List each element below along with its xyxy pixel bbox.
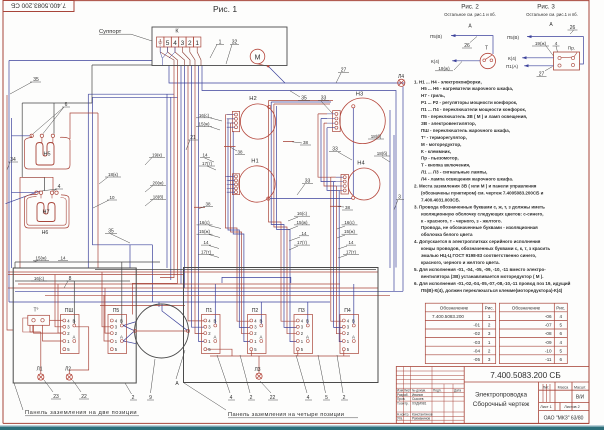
selector wedge from P5 — [123, 322, 136, 344]
svg-text:Утв.: Утв. — [397, 417, 403, 421]
svg-text:П4: П4 — [344, 308, 351, 314]
lamp L3 wire + under-block bus — [207, 349, 350, 373]
wire label 35 top mid — [290, 91, 310, 102]
mid trunk T4 (to P3) — [269, 101, 297, 342]
svg-text:Обозначение: Обозначение — [512, 305, 541, 310]
label 32 (wire) — [226, 40, 239, 65]
H3 strip drop bundle — [318, 114, 336, 190]
support box (Суппорт) — [152, 27, 287, 66]
svg-text:7.400.5083.200 СБ: 7.400.5083.200 СБ — [490, 371, 560, 380]
svg-text:15(ж): 15(ж) — [199, 229, 211, 234]
svg-text:14: 14 — [202, 153, 208, 158]
thermostat link to PSh — [50, 319, 63, 321]
svg-text:К(4): К(4) — [431, 59, 440, 64]
label 1 (wire) — [210, 40, 224, 59]
svg-text:-04: -04 — [473, 348, 480, 353]
title block left tiny rows — [397, 389, 461, 421]
K trunk T1 (to bus) — [132, 66, 184, 315]
svg-text:4: 4 — [560, 314, 563, 319]
svg-text:Т: Т — [485, 46, 488, 52]
svg-text:А: А — [120, 335, 123, 340]
svg-text:5: 5 — [166, 40, 170, 47]
panel 1 leader + caption — [14, 383, 139, 416]
wire 35 navy: support junction diagonal + long run — [202, 66, 396, 268]
svg-text:Рис. 2: Рис. 2 — [461, 4, 479, 11]
bottom teal window bar — [0, 425, 604, 430]
wire blue rail x92.5 with y244.8 branch — [93, 97, 178, 302]
svg-text:Сборочный чертеж: Сборочный чертеж — [473, 400, 530, 408]
wire label 21 — [186, 135, 198, 150]
trunk labels 16с 15ж 14 17т (right) — [344, 220, 357, 255]
H2/H1 strip trunk T3 (to P2) — [225, 115, 249, 342]
wire label 18(б) left — [145, 195, 166, 207]
svg-text:Рахманинов: Рахманинов — [412, 417, 430, 421]
svg-text:М - моторедуктор,: М - моторедуктор, — [421, 142, 461, 147]
wire label 33 low mid — [297, 178, 313, 195]
svg-text:А: А — [260, 335, 263, 340]
svg-text:П1: П1 — [206, 308, 213, 314]
svg-text:Н1: Н1 — [251, 159, 258, 165]
svg-text:В/И: В/И — [576, 395, 585, 401]
oven lamp L4 — [398, 74, 405, 86]
wire label 19(к) — [145, 153, 165, 166]
wire label 14 low-left — [58, 256, 68, 261]
wire label 8 low-left — [64, 276, 74, 288]
burner H2 — [240, 96, 275, 139]
svg-text:1. Н1 ... Н4 - электроконфорки: 1. Н1 ... Н4 - электроконфорки, — [414, 78, 482, 84]
svg-text:В: В — [352, 319, 355, 324]
wire label 27 — [336, 68, 349, 84]
svg-text:18(б): 18(б) — [377, 151, 388, 156]
svg-text:6: 6 — [560, 357, 563, 362]
svg-text:Электропроводка: Электропроводка — [475, 392, 528, 399]
svg-text:16(с): 16(с) — [297, 211, 308, 216]
wire 1 black to support and grill H7 — [22, 65, 152, 191]
fig3 node P1(A) — [506, 64, 554, 69]
svg-text:Масшт.: Масшт. — [574, 386, 586, 390]
fig3 node K(4) — [508, 56, 554, 61]
svg-text:П5: П5 — [113, 308, 120, 314]
svg-text:6: 6 — [560, 331, 563, 336]
svg-text:2: 2 — [188, 40, 192, 47]
motor M lead — [258, 64, 269, 67]
svg-text:14: 14 — [203, 240, 209, 245]
wire 15ж/14 black run — [15, 262, 160, 268]
svg-text:1: 1 — [488, 314, 491, 319]
bus: red y288 — [8, 287, 378, 289]
svg-text:15(ж): 15(ж) — [296, 220, 308, 225]
fig3 piezo igniter Pr box — [554, 45, 580, 70]
terminal strip of H4 — [336, 174, 349, 194]
svg-text:-08: -08 — [545, 331, 552, 336]
fig2 wire label 26 — [462, 37, 477, 50]
bus: navy y291.3 — [15, 290, 403, 292]
svg-text:П2: П2 — [252, 308, 259, 314]
svg-text:19(к): 19(к) — [152, 153, 162, 158]
svg-text:Дата: Дата — [454, 389, 461, 393]
svg-text:В: В — [306, 319, 309, 324]
svg-text:Пр - пьезомотор,: Пр - пьезомотор, — [421, 156, 459, 161]
motor M — [250, 49, 269, 67]
svg-text:3. Провода обозначенные буквам: 3. Провода обозначенные буквами с, ж, т,… — [414, 203, 545, 209]
wire label 20(ж) — [145, 181, 166, 193]
svg-text:17(т): 17(т) — [201, 249, 212, 254]
wire 16с/8 black run — [15, 280, 130, 282]
svg-text:14: 14 — [60, 256, 66, 261]
svg-text:красного, черного и желтого цв: красного, черного и желтого цвета. — [421, 260, 500, 265]
svg-text:Подп.: Подп. — [433, 389, 442, 393]
svg-text:М: М — [255, 55, 261, 62]
svg-text:Н5: Н5 — [43, 152, 50, 158]
switch P2 — [248, 308, 267, 354]
pin leads under K cells (fan to trunks) — [160, 47, 201, 66]
svg-text:Т - кнопка включения,: Т - кнопка включения, — [421, 163, 470, 168]
panel 1 (two-position ground panel) — [13, 268, 136, 383]
thermostat feeds to PSh pins — [34, 325, 63, 341]
svg-text:5: 5 — [560, 348, 563, 353]
svg-text:6. Для исполнения -01,-02,-04,: 6. Для исполнения -01,-02,-04,-05,-07,-0… — [414, 280, 571, 286]
H1 strip stubs to trunk — [225, 176, 234, 188]
H5 top pins — [30, 134, 55, 142]
svg-text:Л1 ... Л3 - сигнальные лампы,: Л1 ... Л3 - сигнальные лампы, — [421, 170, 487, 175]
P5 B-pin drop (black) — [121, 262, 123, 324]
svg-text:17(т): 17(т) — [346, 249, 357, 254]
svg-text:18(к): 18(к) — [108, 172, 118, 177]
svg-text:В: В — [214, 319, 217, 324]
svg-text:А: А — [214, 335, 217, 340]
svg-text:15(ж): 15(ж) — [344, 229, 356, 234]
wire label 38 left trunk — [199, 202, 213, 209]
svg-text:П5 - переключатель ЗВ ( М ) и: П5 - переключатель ЗВ ( М ) и ламп освещ… — [421, 114, 527, 119]
heater H5 element — [36, 143, 54, 166]
svg-text:-10: -10 — [545, 348, 552, 353]
wire label 33 at H3-H4 link — [329, 147, 352, 160]
svg-text:14: 14 — [301, 231, 307, 236]
svg-text:ЗВ - электровентилятор,: ЗВ - электровентилятор, — [421, 121, 476, 126]
svg-text:Лит.: Лит. — [543, 386, 550, 390]
svg-text:Масса: Масса — [558, 386, 569, 390]
wire label 38 at H4 — [338, 205, 353, 210]
svg-text:15(ж): 15(ж) — [198, 122, 210, 127]
trunk labels 16с 15ж 14 17т (mid) — [296, 211, 308, 245]
svg-text:Панель заземления на две позиц: Панель заземления на две позиции — [25, 410, 137, 416]
svg-text:-05: -05 — [473, 357, 480, 362]
svg-text:14: 14 — [348, 240, 354, 245]
jumper 38 ticks — [194, 142, 341, 208]
panel1 bottom labels 23 22 2 9 — [44, 359, 155, 401]
terminal strip of H3 — [327, 111, 340, 132]
svg-text:3: 3 — [488, 357, 491, 362]
terminal block K — [157, 29, 201, 48]
variants table left — [425, 303, 495, 363]
ground symbol in cell — [158, 39, 162, 45]
svg-text:2. Места заземления ЗВ ( или М: 2. Места заземления ЗВ ( или М ) и панел… — [414, 184, 537, 189]
fig3 labels 19(ж) and 4 — [532, 41, 560, 56]
lamp L1 wire — [30, 325, 41, 374]
svg-text:Л1: Л1 — [36, 367, 42, 373]
svg-text:10: 10 — [109, 195, 115, 200]
top-left inverted stamp box — [3, 1, 74, 12]
svg-text:-02: -02 — [473, 331, 480, 336]
svg-text:Панель заземления на четыре по: Панель заземления на четыре позиции — [228, 412, 344, 418]
svg-text:Рис.: Рис. — [485, 305, 494, 310]
svg-text:ПШ: ПШ — [65, 308, 74, 314]
svg-text:В: В — [260, 319, 263, 324]
svg-text:16(с): 16(с) — [34, 276, 45, 281]
svg-text:3: 3 — [488, 331, 491, 336]
svg-text:4: 4 — [173, 40, 177, 47]
svg-text:П5(В)-К(4), должен переключать: П5(В)-К(4), должен переключаться клемме(… — [421, 288, 563, 293]
svg-text:1: 1 — [488, 340, 491, 345]
svg-text:Лист 1: Лист 1 — [540, 405, 551, 409]
svg-text:5. Для исполнения -01, -04, -0: 5. Для исполнения -01, -04, -05, -09, -1… — [414, 267, 546, 272]
signal lamp L1 — [36, 367, 43, 381]
svg-text:Рис.: Рис. — [556, 305, 565, 310]
panel2 B-pin drops — [215, 284, 353, 324]
PSh B-pin drop (black) — [73, 281, 75, 324]
wire label 10 — [93, 195, 117, 208]
switch P1 — [202, 308, 221, 354]
svg-text:5: 5 — [560, 323, 563, 328]
svg-text:38: 38 — [237, 149, 243, 154]
wire label 34 — [7, 157, 18, 170]
svg-text:7.400.5083.200 СБ: 7.400.5083.200 СБ — [11, 1, 66, 8]
svg-text:Т.контр.: Т.контр. — [397, 401, 409, 405]
burner H1 — [239, 159, 275, 203]
svg-text:19(ж): 19(ж) — [438, 66, 450, 71]
fig2 button T — [480, 46, 495, 69]
svg-text:17(т): 17(т) — [297, 240, 308, 245]
svg-text:16(с): 16(с) — [199, 220, 210, 225]
svg-text:В: В — [73, 319, 76, 324]
technical notes list — [414, 78, 571, 292]
figure 3 header — [526, 4, 578, 29]
oven heater H5 wire loop enclosure — [25, 136, 71, 170]
wire red left rail — [7, 95, 13, 330]
bus: red y274.5 — [8, 274, 184, 276]
svg-text:Рис. 3: Рис. 3 — [537, 4, 555, 11]
svg-text:Т°: Т° — [33, 308, 38, 314]
wire red rail x98 to H5 loop — [70, 113, 98, 268]
black bus wire y269.5 — [95, 269, 376, 271]
svg-text:-06: -06 — [545, 314, 552, 319]
svg-text:Листов 2: Листов 2 — [564, 405, 580, 409]
svg-text:Н2: Н2 — [249, 96, 256, 102]
svg-text:эмалью НЦ-Ц ГОСТ 9198-83 соотв: эмалью НЦ-Ц ГОСТ 9198-83 соответственно … — [421, 253, 536, 258]
wire 27 navy: K to oven lamp L4 — [169, 66, 405, 292]
wire label 38 at H2 — [230, 147, 245, 154]
wire label 35 mid-left — [105, 229, 130, 244]
svg-text:К - клеммник,: К - клеммник, — [421, 149, 451, 154]
fig2 wire label 19(ж) — [435, 62, 462, 71]
svg-text:38: 38 — [205, 202, 211, 207]
terminal strip of H2 — [227, 111, 240, 131]
wire label 35 top-left — [10, 77, 41, 94]
svg-text:20(ж): 20(ж) — [152, 181, 164, 186]
wire red rail x20 to H7 — [20, 177, 53, 268]
svg-text:4: 4 — [560, 340, 563, 345]
svg-text:Л4 - лампа освещения жарочного: Л4 - лампа освещения жарочного шкафа. — [421, 176, 513, 182]
svg-text:А: А — [352, 335, 355, 340]
svg-text:Н7 - гриль,: Н7 - гриль, — [421, 93, 445, 98]
svg-text:Обозначение: Обозначение — [440, 305, 469, 310]
svg-text:ОАО "МКЗ" 63/80: ОАО "МКЗ" 63/80 — [544, 416, 584, 422]
switch P4 — [340, 308, 359, 354]
svg-text:-09: -09 — [545, 340, 552, 345]
wire blue feeds to H5/H7 pins — [6, 136, 41, 204]
svg-text:(обозначены пунктиром) см. чер: (обозначены пунктиром) см. чертеж 7.4005… — [421, 190, 544, 196]
svg-text:19(ж): 19(ж) — [535, 41, 547, 46]
wire label 16(с) low-left — [31, 276, 47, 281]
lamp L2 wire via PSh B — [69, 327, 88, 374]
variants table right — [499, 303, 567, 363]
switch P5 — [108, 308, 127, 354]
bus: red y272 — [8, 271, 378, 273]
svg-text:А: А — [306, 335, 309, 340]
svg-text:18(б): 18(б) — [371, 134, 382, 139]
wire labels 16(с) 15(ж) near H2 — [196, 113, 222, 121]
K trunk T2 (to P1) — [188, 66, 204, 342]
svg-text:Н3: Н3 — [356, 92, 363, 98]
panel2 bottom labels 4 2 22 4 5 2 — [217, 355, 348, 401]
panel 2 (four-position ground panel) — [184, 268, 379, 383]
bus drops into P5 pins — [102, 272, 110, 341]
heater H7 element — [37, 203, 55, 222]
svg-text:Пр.: Пр. — [568, 45, 575, 51]
wire label 38 mid — [292, 140, 311, 145]
svg-text:16(с): 16(с) — [199, 113, 210, 118]
svg-text:Рис. 1: Рис. 1 — [213, 4, 237, 14]
wire blue rails x167/x171 — [167, 94, 171, 280]
svg-text:П1(А): П1(А) — [506, 64, 518, 69]
bus: red y305 — [100, 305, 185, 307]
svg-text:Н5 ... Н6 - нагреватели жарочн: Н5 ... Н6 - нагреватели жарочного шкафа, — [421, 85, 513, 91]
fig3 wire label 27 — [537, 67, 553, 78]
svg-text:оболочка белого цвета: оболочка белого цвета — [421, 231, 473, 237]
grill heater H7 wire loop enclosure (double) — [25, 194, 70, 228]
svg-text:38: 38 — [345, 205, 351, 210]
switch P3 — [294, 308, 313, 354]
svg-text:4: 4 — [555, 41, 558, 46]
signal lamp L2 — [65, 367, 72, 381]
svg-text:2: 2 — [488, 323, 491, 328]
svg-text:7.400.4031.003СБ.: 7.400.4031.003СБ. — [421, 197, 460, 202]
svg-text:ХХДМ981: ХХДМ981 — [412, 401, 427, 405]
svg-text:концы проводов, обозначенных б: концы проводов, обозначенных буквами с, … — [421, 245, 550, 251]
svg-text:Н7: Н7 — [42, 210, 49, 216]
label 4 with leaders to H7 pins — [42, 184, 63, 191]
svg-text:Л2: Л2 — [65, 367, 71, 373]
svg-text:К(4): К(4) — [508, 56, 517, 61]
svg-text:38: 38 — [303, 140, 309, 145]
label 6 with leaders to H5 pins — [33, 102, 70, 134]
svg-text:Остальное см. рис.1 и пб.: Остальное см. рис.1 и пб. — [526, 12, 578, 17]
svg-text:А: А — [73, 335, 76, 340]
wire label 18(б) right — [374, 151, 390, 162]
burner H3 — [340, 92, 386, 144]
wire label 3 — [394, 195, 404, 210]
panel 2 leader + caption — [184, 383, 358, 418]
svg-text:2: 2 — [488, 348, 491, 353]
wire 33 navy H1-H4 bottom link — [270, 198, 352, 200]
svg-text:изоляционную оболочку следующи: изоляционную оболочку следующих цветов: … — [421, 210, 544, 216]
right navy rails 18(b)/3 — [390, 110, 394, 291]
wire labels 14 17(т) near H1 — [200, 153, 214, 162]
svg-text:к - красного, т - черного, з -: к - красного, т - черного, з - желтого. — [421, 218, 502, 223]
thermostat T° — [23, 308, 50, 333]
svg-text:7.400.5083.200: 7.400.5083.200 — [432, 314, 464, 319]
bus: red y295.3 — [45, 294, 390, 296]
svg-text:Л3: Л3 — [254, 367, 260, 373]
figure 2 header — [444, 4, 496, 30]
svg-text:17(т): 17(т) — [202, 161, 213, 166]
burner H4 — [348, 161, 380, 201]
signal lamp L3 — [254, 367, 262, 379]
fig2 node K(4) — [431, 59, 480, 64]
svg-text:ПШ - переключатель жарочного ш: ПШ - переключатель жарочного шкафа, — [421, 127, 510, 133]
svg-text:П3: П3 — [298, 308, 305, 314]
title block — [396, 367, 589, 424]
svg-text:4. Допускается в электроплитка: 4. Допускается в электроплитках серийног… — [414, 238, 541, 244]
svg-text:П5(В): П5(В) — [430, 34, 442, 39]
svg-text:П1 ... П4 - переключатели мощн: П1 ... П4 - переключатели мощности конфо… — [421, 106, 526, 112]
bus drops into PSh pins — [55, 275, 63, 334]
svg-text:-07: -07 — [545, 323, 552, 328]
svg-text:В: В — [120, 319, 123, 324]
terminal strip of H1 — [227, 174, 240, 195]
svg-text:П5(В): П5(В) — [507, 35, 519, 40]
wire 35 left vertical + top feed to support — [9, 61, 330, 308]
wire label 15(ж) low-left — [33, 256, 49, 263]
svg-text:Н6: Н6 — [42, 230, 49, 236]
svg-text:-03: -03 — [473, 340, 480, 345]
svg-text:-11: -11 — [545, 357, 552, 362]
svg-text:16(с): 16(с) — [344, 220, 355, 225]
svg-text:1: 1 — [195, 40, 199, 47]
wire 33 navy H3-H4 link — [352, 108, 354, 196]
trunk labels 16с 15ж 14 17т (left) — [199, 220, 212, 255]
svg-text:15(ж): 15(ж) — [35, 256, 47, 261]
fig3 node P5(B) — [507, 35, 583, 64]
svg-text:3: 3 — [181, 40, 185, 47]
svg-text:Остальное см. рис.1 и пб.: Остальное см. рис.1 и пб. — [444, 12, 496, 17]
svg-text:Т° - терморегулятор,: Т° - терморегулятор, — [421, 135, 467, 140]
wire label 33 top mid — [318, 95, 332, 113]
selector knob circle A — [123, 304, 189, 387]
bus: red y284 — [18, 283, 340, 285]
label Суппорт with leader — [99, 29, 152, 41]
wire label 18(к) — [99, 172, 121, 184]
svg-text:Н4: Н4 — [357, 161, 365, 167]
svg-text:18(б): 18(б) — [153, 195, 164, 200]
fig2 node P5(B) — [430, 34, 493, 54]
top links H2 to H3 strip — [269, 101, 334, 105]
H4 strip trunk T5 (to P4) — [331, 177, 343, 341]
fig3 wire label 26 — [568, 25, 578, 34]
svg-text:Р1 ... Р2 - регуляторы мощност: Р1 ... Р2 - регуляторы мощности конфорок… — [421, 99, 517, 105]
wire 6 blue rail x88 — [88, 94, 174, 268]
bus: navy y277.4 — [222, 277, 291, 283]
H7 top pins — [35, 191, 58, 198]
svg-text:-01: -01 — [473, 323, 480, 328]
wire blue left inner rail — [11, 118, 13, 268]
svg-text:Провода, не обозначенные буква: Провода, не обозначенные буквами - изоля… — [421, 224, 538, 230]
switch PSh — [61, 308, 80, 354]
svg-text:вентилятора (ЗВ) устанавливает: вентилятора (ЗВ) устанавливается моторед… — [421, 274, 544, 279]
wire label 18(б) right upper — [368, 134, 384, 139]
